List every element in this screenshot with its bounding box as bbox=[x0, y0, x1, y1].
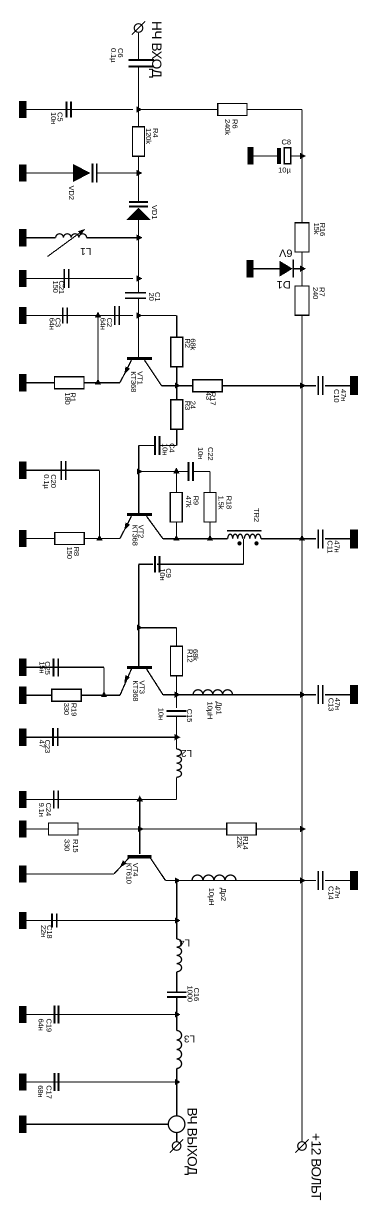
junction C3/C2/emitter branch bbox=[95, 312, 101, 318]
junction rail/C10 bbox=[300, 383, 306, 389]
junction emitter/C20 bbox=[96, 535, 102, 541]
wire C18 row bbox=[27, 920, 177, 922]
svg-text:C8: C8 bbox=[281, 138, 291, 147]
capacitor C19 bbox=[53, 1006, 55, 1024]
transistor VT2 KT368 bbox=[127, 513, 152, 516]
wire collector node to R3 bbox=[176, 386, 178, 400]
wire C9 left bbox=[139, 563, 153, 565]
capacitor C4 bbox=[154, 436, 156, 455]
svg-text:1.5k: 1.5k bbox=[217, 496, 226, 510]
ground bbox=[19, 1116, 27, 1133]
wire L1 to main bbox=[87, 237, 139, 239]
ground bbox=[19, 912, 27, 929]
svg-text:D1: D1 bbox=[277, 278, 291, 290]
svg-text:43: 43 bbox=[204, 392, 213, 400]
ground bbox=[350, 376, 358, 395]
wire input to C6 bbox=[138, 33, 140, 60]
wire VD1 to C1 bbox=[138, 220, 140, 294]
transistor VT3 KT368 bbox=[127, 666, 152, 669]
ground bbox=[19, 1073, 27, 1090]
junction collector/C15 column bbox=[175, 692, 181, 698]
wire down to R18 bbox=[209, 472, 211, 493]
wire TR2 tap to C9 bbox=[243, 539, 245, 565]
svg-text:0.1µ: 0.1µ bbox=[109, 48, 118, 63]
ground bbox=[19, 820, 27, 837]
wire TR2 to rail bbox=[261, 538, 302, 540]
wire C19 row bbox=[27, 1014, 177, 1016]
junction C17 row bbox=[175, 1079, 181, 1085]
wire L2 to C24 row bbox=[176, 777, 178, 799]
ground bbox=[350, 685, 358, 704]
capacitor C2 bbox=[114, 306, 116, 325]
wire rail to C11 bbox=[302, 538, 316, 540]
junction base column/C24 row bbox=[137, 796, 143, 802]
svg-text:КТ368: КТ368 bbox=[131, 680, 140, 701]
svg-text:15н: 15н bbox=[37, 661, 46, 673]
junction C19 row bbox=[175, 1011, 181, 1017]
wire R1 row bbox=[27, 382, 55, 384]
svg-text:68н: 68н bbox=[36, 1085, 45, 1097]
svg-text:C14: C14 bbox=[327, 886, 336, 899]
capacitor C5 bbox=[65, 101, 67, 117]
wire rail to C13 bbox=[302, 694, 316, 696]
svg-text:330: 330 bbox=[62, 703, 71, 715]
junction main/C2/R2 row bbox=[137, 312, 143, 318]
wire R19 to emitter bbox=[81, 694, 120, 696]
dot TR2 secondary bbox=[254, 541, 258, 545]
wire rail main bbox=[301, 315, 303, 1142]
wire base node to R12 bbox=[139, 627, 177, 629]
wire Dr1 to rail bbox=[233, 694, 303, 696]
emitter arrow VT4 bbox=[120, 860, 127, 868]
svg-text:10µН: 10µН bbox=[205, 702, 214, 720]
wire C17 row bbox=[27, 1081, 177, 1083]
inductor L1 bbox=[56, 234, 87, 238]
junction rail/C13 bbox=[300, 692, 306, 698]
svg-text:64н: 64н bbox=[48, 318, 57, 330]
ground bbox=[19, 1006, 27, 1023]
wire zener to rail bbox=[293, 268, 302, 270]
ground bbox=[19, 530, 27, 547]
svg-text:330: 330 bbox=[62, 839, 71, 851]
inductor L2 bbox=[177, 749, 182, 777]
capacitor C22 bbox=[187, 462, 189, 481]
junction emitter/C25 bbox=[101, 691, 107, 697]
capacitor C6 bbox=[128, 59, 154, 61]
svg-text:C22: C22 bbox=[206, 447, 215, 460]
wire C8 to rail bbox=[291, 155, 302, 157]
wire C4 left bbox=[139, 444, 154, 446]
wire C23 row bbox=[27, 736, 177, 738]
capacitor C24 bbox=[53, 791, 55, 809]
wire to C15 bbox=[176, 695, 178, 708]
wire VD2 to main bbox=[97, 172, 139, 174]
emitter arrow VT3 bbox=[124, 675, 130, 683]
wire R16 to R7 bbox=[301, 252, 303, 287]
capacitor C21 bbox=[63, 269, 65, 288]
svg-text:22н: 22н bbox=[39, 925, 48, 937]
wire C10 to ground bbox=[325, 385, 350, 387]
resistor R7 bbox=[295, 286, 309, 315]
wire C13 to ground bbox=[325, 694, 350, 696]
choke Dr2 bbox=[192, 880, 236, 882]
wire C15 to L2 bbox=[176, 717, 178, 750]
wire R8 row bbox=[27, 538, 55, 540]
svg-text:ВЧ ВЫХОД: ВЧ ВЫХОД bbox=[185, 1108, 200, 1175]
wire base to R2 bbox=[139, 315, 177, 317]
dot TR2 primary bbox=[237, 541, 241, 545]
ground bbox=[19, 791, 27, 808]
C8 positive plate bbox=[284, 148, 290, 164]
wire R18 to collector row bbox=[209, 522, 211, 539]
wire C25 down to emitter bbox=[103, 667, 105, 695]
ground bbox=[350, 871, 358, 890]
capacitor C11 bbox=[317, 529, 319, 548]
wire C11 to ground bbox=[325, 538, 350, 540]
ground bbox=[19, 687, 27, 704]
svg-text:10н: 10н bbox=[196, 447, 205, 459]
wire collector row bbox=[166, 880, 193, 882]
svg-text:1000: 1000 bbox=[186, 986, 195, 1002]
wire R9 to collector row bbox=[175, 522, 177, 539]
junction C23 row bbox=[175, 734, 181, 740]
wire C4 to VT2 base bbox=[138, 445, 140, 513]
svg-text:64н: 64н bbox=[37, 1019, 46, 1031]
wire C20 row bbox=[27, 469, 100, 471]
resistor R15 bbox=[49, 823, 78, 835]
resistor R18 bbox=[204, 493, 216, 522]
ground bbox=[19, 659, 27, 676]
capacitor C1 bbox=[125, 292, 146, 294]
wire collector row bbox=[162, 385, 193, 387]
wire L3 to output connector bbox=[176, 1069, 178, 1116]
zener cathode bar bbox=[292, 260, 294, 278]
wire R19 row bbox=[27, 694, 53, 696]
ground bbox=[19, 374, 27, 391]
svg-text:15k: 15k bbox=[312, 223, 321, 235]
varicap VD2 bbox=[73, 164, 91, 182]
wire C20 down to emitter bbox=[99, 470, 101, 538]
emitter arrow VT1 bbox=[124, 366, 130, 374]
wire Dr2 to rail bbox=[236, 880, 302, 882]
wire VT2 base row bbox=[139, 471, 188, 473]
transistor VT4 KT610 bbox=[127, 855, 151, 858]
svg-text:10µ: 10µ bbox=[278, 166, 291, 175]
terminal: +12 VOLT bbox=[298, 1142, 307, 1151]
svg-text:150: 150 bbox=[65, 547, 74, 559]
svg-text:КТ610: КТ610 bbox=[125, 863, 134, 884]
junction C18 row bbox=[175, 917, 181, 923]
wire main to R6 bbox=[139, 109, 218, 111]
ground bbox=[350, 529, 358, 548]
wire C6 to R4 bbox=[138, 66, 140, 126]
junction main/VD2 row bbox=[137, 170, 143, 176]
capacitor C25 bbox=[53, 658, 55, 676]
winding TR2 secondary bbox=[244, 534, 261, 539]
wire C16 to L3 bbox=[176, 997, 178, 1031]
junction emitter/C3 branch bbox=[95, 379, 101, 385]
svg-text:10н: 10н bbox=[161, 443, 170, 455]
wire down to R2 bbox=[176, 316, 178, 338]
capacitor C16 bbox=[167, 991, 187, 993]
svg-text:68k: 68k bbox=[188, 338, 197, 350]
capacitor C20 bbox=[60, 461, 62, 480]
wire base node to R14 bbox=[140, 828, 227, 830]
svg-text:C10: C10 bbox=[332, 389, 341, 402]
resistor R2 bbox=[171, 337, 183, 366]
svg-text:КТ368: КТ368 bbox=[130, 525, 139, 546]
svg-text:47: 47 bbox=[38, 740, 47, 748]
output connector circle bbox=[168, 1116, 185, 1133]
wire ground to zener bbox=[254, 268, 280, 270]
ground bbox=[19, 865, 27, 882]
wire C2 row bbox=[98, 315, 133, 317]
wire C5 row bbox=[27, 109, 134, 111]
junction rail/C11 bbox=[299, 535, 305, 541]
svg-text:64н: 64н bbox=[99, 318, 108, 330]
svg-text:Др1: Др1 bbox=[215, 702, 224, 715]
resistor R6 bbox=[218, 104, 247, 116]
ground bbox=[19, 462, 27, 479]
wire R1 to emitter bbox=[84, 382, 120, 384]
resistor R12 bbox=[171, 646, 183, 675]
svg-text:КТ368: КТ368 bbox=[129, 371, 138, 392]
svg-text:150: 150 bbox=[51, 281, 60, 293]
svg-text:10н: 10н bbox=[158, 568, 167, 580]
wire C21 row bbox=[27, 278, 134, 280]
wire C24 row bbox=[27, 799, 177, 801]
junction rail/zener bbox=[300, 266, 306, 272]
wire C4 right bbox=[160, 444, 176, 446]
wire ground to connector bbox=[27, 1123, 169, 1125]
winding TR2 primary bbox=[228, 534, 243, 539]
transistor VT1 KT368 bbox=[127, 357, 152, 360]
wire R2 to collector node bbox=[176, 367, 178, 386]
capacitor C15 bbox=[166, 710, 186, 712]
wire ground to VT4 emitter bbox=[27, 873, 115, 875]
ground bbox=[19, 729, 27, 746]
junction rail/R14 bbox=[300, 826, 306, 832]
svg-text:47k: 47k bbox=[184, 496, 193, 508]
svg-text:24: 24 bbox=[188, 401, 197, 409]
svg-text:68k: 68k bbox=[191, 649, 200, 661]
junction collector/R2/R3 bbox=[175, 383, 181, 389]
wire VT4 base column bbox=[139, 800, 141, 854]
terminal: VCh VYHOD (HF output) bbox=[172, 1142, 181, 1151]
wire R15 row bbox=[27, 828, 49, 830]
svg-text:L1: L1 bbox=[80, 245, 92, 256]
wire R8 to emitter bbox=[84, 538, 120, 540]
svg-text:22k: 22k bbox=[235, 836, 244, 848]
capacitor C17 bbox=[53, 1073, 55, 1091]
ground bbox=[19, 229, 27, 246]
wire ground to C8 bbox=[254, 155, 277, 157]
wire down to R9 bbox=[175, 472, 177, 493]
wire R4 to VD1 bbox=[138, 156, 140, 201]
svg-text:+12 ВОЛЬТ: +12 ВОЛЬТ bbox=[309, 1133, 324, 1200]
ground bbox=[19, 164, 27, 181]
capacitor C13 bbox=[317, 685, 319, 704]
ground bbox=[247, 260, 254, 278]
wire VT3 base bbox=[138, 628, 140, 667]
wire collector row bbox=[163, 694, 193, 696]
svg-text:C11: C11 bbox=[326, 540, 335, 553]
capacitor C18 bbox=[51, 913, 53, 927]
svg-text:C15: C15 bbox=[185, 709, 194, 722]
junction VT2 base node bbox=[137, 468, 143, 474]
svg-text:НЧ ВХОД: НЧ ВХОД bbox=[149, 21, 164, 78]
resistor R17 bbox=[193, 380, 222, 392]
core TR2 bbox=[227, 530, 262, 532]
svg-text:10н: 10н bbox=[157, 708, 166, 720]
svg-text:240: 240 bbox=[311, 287, 320, 299]
wire R17 to rail bbox=[222, 385, 302, 387]
svg-text:VD1: VD1 bbox=[150, 205, 159, 219]
svg-text:10µН: 10µН bbox=[207, 888, 216, 906]
resistor R1 bbox=[55, 377, 84, 389]
choke Dr1 bbox=[193, 694, 232, 696]
svg-text:240k: 240k bbox=[223, 119, 232, 135]
resistor R19 bbox=[52, 689, 81, 701]
svg-text:180: 180 bbox=[63, 392, 72, 404]
ground bbox=[19, 307, 27, 324]
wire C9 row bbox=[157, 563, 243, 565]
variable arrow of L1 bbox=[48, 231, 84, 257]
wire C22 to R18 bbox=[194, 471, 210, 473]
C8 negative plate bbox=[277, 148, 281, 164]
resistor R3 bbox=[171, 400, 183, 429]
wire collector down to L4 bbox=[176, 881, 178, 940]
wire C1 to VT1 base bbox=[138, 298, 140, 357]
junction R18/collector row bbox=[207, 535, 213, 541]
junction rail/C8 bbox=[300, 153, 306, 159]
wire R6 to rail corner bbox=[247, 109, 302, 111]
svg-text:L4: L4 bbox=[179, 937, 191, 948]
wire C3 row bbox=[27, 315, 96, 317]
wire down to R12 bbox=[176, 628, 178, 647]
wire junction to emitter row bbox=[97, 316, 99, 383]
svg-text:VD2: VD2 bbox=[67, 186, 76, 200]
junction R9/collector row bbox=[173, 535, 179, 541]
svg-text:9.1н: 9.1н bbox=[37, 803, 46, 817]
ground bbox=[19, 101, 27, 118]
svg-text:L3: L3 bbox=[184, 1032, 196, 1043]
wire collector to TR2 bbox=[163, 538, 228, 540]
capacitor C10 bbox=[317, 376, 319, 395]
svg-text:0.1µ: 0.1µ bbox=[42, 474, 51, 489]
resistor R14 bbox=[227, 823, 256, 835]
wire C14 to ground bbox=[325, 880, 350, 882]
varicap VD1 bbox=[129, 201, 148, 203]
capacitor C23 bbox=[52, 728, 54, 746]
resistor R4 bbox=[133, 127, 145, 156]
junction main/C5/R6 row bbox=[137, 106, 143, 112]
wire R3 to C4 bbox=[176, 429, 178, 445]
junction main/C21 row bbox=[137, 275, 143, 281]
wire L1 row left bbox=[27, 237, 56, 239]
svg-text:10н: 10н bbox=[49, 112, 58, 124]
svg-text:C13: C13 bbox=[327, 698, 336, 711]
junction VT3 base node bbox=[137, 625, 143, 631]
capacitor C14 bbox=[317, 871, 319, 890]
ground bbox=[247, 147, 253, 164]
svg-text:TR2: TR2 bbox=[252, 508, 261, 522]
wire rail top section bbox=[301, 110, 303, 223]
wire rail to C14 bbox=[302, 880, 316, 882]
wire connector to terminal bbox=[176, 1133, 178, 1142]
wire R12 to collector node bbox=[176, 676, 178, 695]
svg-text:Др2: Др2 bbox=[219, 888, 228, 901]
wire R14 to rail bbox=[256, 828, 302, 830]
resistor R9 bbox=[170, 493, 182, 522]
wire C25 row bbox=[27, 666, 105, 668]
svg-text:L2: L2 bbox=[181, 747, 193, 758]
terminal: NCh VHOD (LF input) bbox=[134, 24, 143, 33]
emitter arrow VT2 bbox=[124, 522, 130, 530]
ground bbox=[19, 270, 27, 287]
wire L4 to C16 bbox=[176, 972, 178, 992]
junction collector/output column bbox=[175, 877, 181, 883]
wire R15 to base node bbox=[78, 828, 140, 830]
svg-text:6V: 6V bbox=[278, 247, 292, 259]
inductor L4 bbox=[177, 939, 182, 972]
junction R9 tap bbox=[173, 468, 179, 474]
junction rail/C14 bbox=[300, 877, 306, 883]
resistor R8 bbox=[55, 533, 84, 545]
wire C9 to VT3 base node bbox=[138, 564, 140, 627]
inductor L3 bbox=[177, 1031, 182, 1069]
junction main/L1 row bbox=[137, 235, 143, 241]
svg-text:20: 20 bbox=[147, 293, 156, 301]
junction base/R15/R14 row bbox=[138, 826, 144, 832]
resistor R16 bbox=[295, 223, 309, 252]
wire VD2 row bbox=[27, 172, 74, 174]
capacitor C3 bbox=[62, 307, 64, 323]
svg-text:120k: 120k bbox=[144, 128, 153, 144]
wire rail to C10 bbox=[302, 385, 316, 387]
capacitor C9 bbox=[154, 556, 156, 572]
